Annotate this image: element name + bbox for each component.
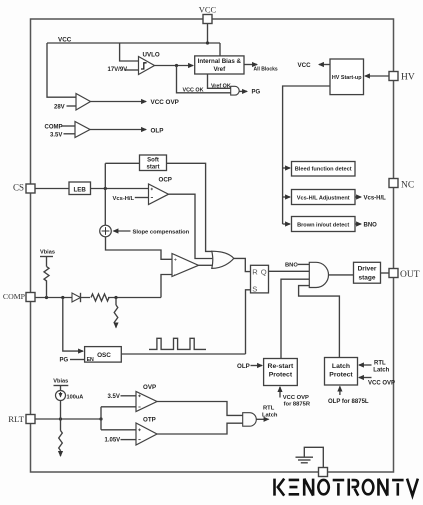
svg-text:OTP: OTP: [143, 416, 156, 423]
svg-text:VCC OVP: VCC OVP: [283, 395, 309, 401]
svg-text:UVLO: UVLO: [143, 52, 160, 59]
svg-text:Driver: Driver: [358, 266, 377, 273]
svg-text:BNO: BNO: [285, 262, 298, 268]
svg-text:Slope compensation: Slope compensation: [133, 229, 190, 235]
svg-text:Internal Bias &: Internal Bias &: [198, 58, 242, 65]
svg-text:RTL: RTL: [374, 361, 386, 367]
svg-text:EN: EN: [87, 357, 94, 363]
svg-text:LEB: LEB: [74, 186, 87, 193]
svg-text:All Blocks: All Blocks: [254, 67, 278, 73]
svg-text:VCC OK: VCC OK: [183, 88, 204, 94]
svg-text:R: R: [252, 267, 258, 276]
svg-text:start: start: [146, 164, 159, 170]
svg-text:CS: CS: [13, 183, 24, 193]
svg-text:VCC: VCC: [58, 37, 72, 44]
svg-text:HV: HV: [401, 73, 415, 83]
svg-text:Latch: Latch: [373, 368, 389, 374]
svg-text:Vref OK: Vref OK: [211, 83, 231, 89]
svg-text:100uA: 100uA: [67, 394, 84, 400]
svg-text:OLP: OLP: [237, 363, 250, 370]
svg-text:PG: PG: [252, 89, 261, 95]
svg-text:for 8875R: for 8875R: [284, 401, 311, 407]
svg-text:OCP: OCP: [159, 177, 172, 184]
svg-text:PG: PG: [60, 357, 69, 363]
svg-text:OVP: OVP: [143, 384, 156, 391]
svg-text:3.5V: 3.5V: [50, 133, 62, 139]
svg-text:Vcs-H/L: Vcs-H/L: [364, 195, 387, 201]
svg-text:Soft: Soft: [147, 157, 159, 163]
svg-text:HV Start-up: HV Start-up: [332, 75, 362, 81]
svg-text:COMP: COMP: [45, 125, 63, 131]
svg-text:1.05V: 1.05V: [105, 438, 121, 444]
svg-text:+: +: [174, 258, 177, 264]
svg-text:S: S: [252, 285, 257, 294]
svg-text:RTL: RTL: [263, 406, 275, 412]
svg-text:Protect: Protect: [329, 372, 353, 379]
svg-text:VCC OVP: VCC OVP: [151, 99, 179, 106]
svg-text:VCC OVP: VCC OVP: [368, 381, 395, 387]
svg-text:Vcs-H/L Adjustment: Vcs-H/L Adjustment: [297, 195, 350, 201]
svg-text:Q: Q: [261, 267, 267, 276]
svg-text:3.5V: 3.5V: [108, 394, 120, 400]
svg-text:RLT: RLT: [8, 414, 24, 424]
svg-text:Vcs-H/L: Vcs-H/L: [113, 196, 135, 202]
svg-text:VCC: VCC: [199, 5, 217, 15]
svg-text:Latch: Latch: [332, 363, 350, 370]
svg-text:Vref: Vref: [213, 66, 226, 73]
svg-text:stage: stage: [359, 275, 376, 282]
svg-text:28V: 28V: [54, 105, 65, 111]
svg-text:OUT: OUT: [400, 270, 420, 280]
svg-text:Protect: Protect: [269, 372, 293, 379]
svg-text:Latch: Latch: [262, 413, 278, 419]
svg-text:VCC: VCC: [298, 62, 312, 69]
svg-text:-: -: [174, 272, 176, 278]
svg-text:NC: NC: [401, 181, 414, 191]
svg-text:Re-start: Re-start: [268, 363, 294, 370]
svg-text:Brown in/out detect: Brown in/out detect: [297, 222, 349, 228]
svg-text:Vbias: Vbias: [40, 250, 55, 256]
svg-text:Bleed function detect: Bleed function detect: [295, 166, 352, 172]
svg-text:COMP: COMP: [3, 292, 26, 301]
svg-text:OLP: OLP: [151, 127, 164, 134]
svg-text:Vbias: Vbias: [53, 378, 68, 384]
svg-text:OLP for 8875L: OLP for 8875L: [328, 399, 369, 405]
svg-text:BNO: BNO: [364, 223, 378, 229]
svg-text:17V/9V: 17V/9V: [108, 67, 128, 73]
svg-text:OSC: OSC: [97, 352, 111, 359]
